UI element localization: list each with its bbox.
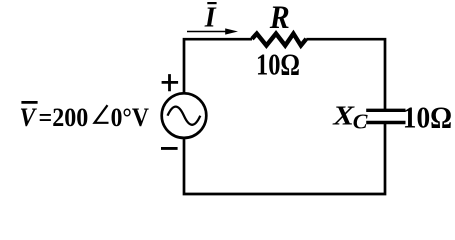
capacitor top plate [366, 109, 405, 112]
svg-text:V: V [20, 102, 38, 132]
svg-text:X: X [332, 99, 355, 130]
current arrow wire [187, 31, 227, 33]
wire: left vertical upper segment + top wire to resistor [184, 39, 252, 93]
svg-text:R: R [269, 0, 290, 36]
svg-text:10Ω: 10Ω [403, 100, 452, 135]
wire: top wire right of resistor + right vertical down to capacitor [306, 39, 385, 110]
wire: right vertical below capacitor + bottom wire + left vertical lower segment [184, 123, 385, 195]
ac source sine wave [168, 107, 201, 125]
overbar of V [21, 101, 37, 104]
svg-text:0°V: 0°V [111, 102, 149, 132]
ac source circle [162, 93, 207, 138]
capacitor bottom plate [366, 121, 405, 124]
current arrowhead [225, 28, 238, 34]
minus sign [161, 147, 178, 150]
angle symbol [95, 105, 109, 123]
svg-text:10Ω: 10Ω [256, 47, 300, 82]
overbar of I [207, 2, 216, 4]
svg-text:=200: =200 [39, 102, 89, 132]
svg-text:C: C [353, 111, 369, 134]
resistor R zigzag [252, 34, 306, 46]
plus sign [162, 74, 179, 91]
svg-text:I: I [204, 2, 217, 33]
